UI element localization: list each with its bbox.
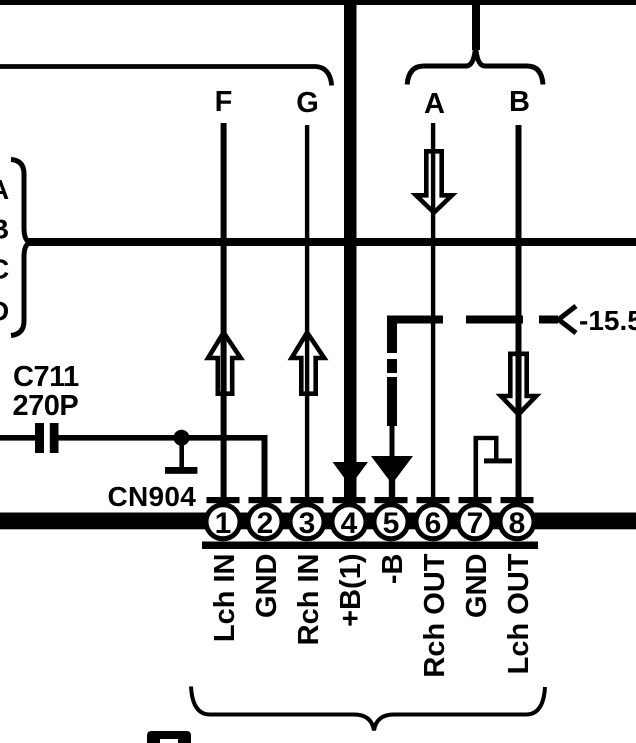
wire: corner down to pin 2 bbox=[262, 437, 268, 504]
solid arrowhead into pin 5 bbox=[371, 456, 413, 484]
svg-text:GND: GND bbox=[251, 554, 283, 618]
svg-text:Lch OUT: Lch OUT bbox=[503, 553, 535, 674]
svg-text:Lch IN: Lch IN bbox=[209, 554, 241, 643]
svg-text:5: 5 bbox=[383, 507, 400, 540]
svg-text:GND: GND bbox=[461, 554, 493, 618]
signal arrow (open, up) on F wire bbox=[208, 333, 241, 394]
wire: thick +B(1) vertical feed to pin 4 bbox=[344, 0, 357, 504]
svg-text:A: A bbox=[424, 88, 445, 120]
svg-text:D: D bbox=[0, 296, 9, 327]
junction node dot bbox=[174, 430, 190, 446]
wire: G column down to pin 3 bbox=[305, 125, 309, 504]
wire: B column down to pin 8 bbox=[516, 125, 522, 504]
wire: left lead into capacitor (cut at edge) bbox=[0, 435, 35, 441]
solid arrowhead into pin 4 bbox=[333, 462, 369, 486]
svg-text:C: C bbox=[0, 254, 9, 285]
wire: thick ground bus through connector row bbox=[0, 513, 636, 530]
wire: stub from top bus to A/B brace bbox=[472, 0, 480, 50]
pin 4 bbox=[333, 497, 366, 503]
svg-text:270P: 270P bbox=[13, 390, 79, 422]
svg-text:B: B bbox=[0, 214, 9, 245]
svg-text:6: 6 bbox=[425, 507, 442, 540]
dashed -B wire: vertical run to pin 5 bbox=[387, 316, 397, 354]
underbrace below connector bbox=[191, 687, 545, 731]
svg-text:A: A bbox=[0, 174, 9, 205]
pin 5 bbox=[375, 497, 408, 503]
signal arrow (open, up) on G wire bbox=[292, 333, 325, 394]
svg-text:B: B bbox=[509, 86, 530, 118]
left vertical brace for nets A,B,C,D bbox=[11, 160, 31, 336]
pin 7 bbox=[459, 497, 492, 503]
hook symbol above pin 7 bbox=[474, 436, 479, 504]
connector CN904 body bottom edge bbox=[202, 542, 538, 550]
pin 1 bbox=[207, 497, 240, 503]
svg-text:Rch IN: Rch IN bbox=[293, 554, 325, 646]
svg-text:Rch OUT: Rch OUT bbox=[419, 553, 451, 677]
svg-text:7: 7 bbox=[467, 507, 484, 540]
ground stub from junction bbox=[179, 437, 184, 467]
brace over A,B columns bbox=[407, 47, 543, 85]
wire: capacitor to corner above pin 2 bbox=[59, 435, 268, 441]
signal arrow (open, down) on B wire bbox=[501, 354, 536, 415]
ground bar bbox=[165, 467, 197, 474]
capacitor C711 left plate bbox=[35, 423, 44, 453]
pin 6 bbox=[417, 497, 450, 503]
dashed -B wire: horizontal run from -15.5V source bbox=[387, 316, 443, 324]
svg-text:CN904: CN904 bbox=[108, 481, 197, 512]
wire: A column down to pin 6 bbox=[431, 123, 435, 504]
svg-text:1: 1 bbox=[215, 507, 232, 540]
svg-text:2: 2 bbox=[257, 507, 274, 540]
svg-text:-B: -B bbox=[377, 554, 409, 585]
svg-text:-15.5V: -15.5V bbox=[579, 305, 636, 336]
signal arrow (open, down) on A wire bbox=[416, 151, 452, 212]
brace over F,G columns (right end, cut at left edge) bbox=[0, 67, 332, 86]
svg-text:3: 3 bbox=[299, 507, 316, 540]
pin 2 bbox=[249, 497, 282, 503]
partial black box (cut off at bottom edge) bbox=[147, 731, 191, 743]
svg-text:8: 8 bbox=[509, 507, 526, 540]
svg-text:F: F bbox=[215, 86, 233, 118]
svg-text:G: G bbox=[296, 87, 319, 119]
svg-text:4: 4 bbox=[341, 507, 358, 540]
svg-text:C711: C711 bbox=[13, 361, 79, 393]
pin 3 bbox=[291, 497, 324, 503]
wire: thin stub into pin 5 arrow bbox=[390, 426, 395, 460]
wire: top horizontal bus bbox=[0, 0, 636, 5]
wire: mid thick horizontal bus bbox=[26, 238, 636, 246]
svg-text:+B(1): +B(1) bbox=[335, 554, 367, 627]
wire: F column down to pin 1 bbox=[221, 123, 227, 504]
open arrowhead at -15.5V source bbox=[559, 306, 577, 333]
capacitor C711 right plate bbox=[50, 423, 59, 453]
pin 8 bbox=[501, 497, 534, 503]
